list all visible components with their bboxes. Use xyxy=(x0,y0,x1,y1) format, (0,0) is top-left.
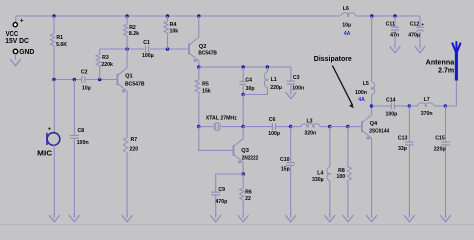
svg-text:R5: R5 xyxy=(202,82,209,88)
svg-text:C8: C8 xyxy=(78,128,85,134)
svg-text:C14: C14 xyxy=(386,97,396,103)
svg-text:2SC6144: 2SC6144 xyxy=(369,128,390,134)
svg-text:C4: C4 xyxy=(245,78,252,84)
svg-text:BC547B: BC547B xyxy=(198,51,217,57)
svg-text:C1: C1 xyxy=(143,40,150,46)
svg-text:330µ: 330µ xyxy=(312,177,324,183)
svg-text:C9: C9 xyxy=(218,187,225,193)
ground C9 xyxy=(215,214,217,218)
resistor R6 xyxy=(242,174,244,189)
capacitor C3 xyxy=(290,67,292,81)
inductor L5 xyxy=(371,82,374,95)
svg-text:15V DC: 15V DC xyxy=(5,38,29,45)
svg-text:R8: R8 xyxy=(338,168,345,174)
ground C3 xyxy=(290,91,292,95)
node C4 bottom xyxy=(241,93,245,97)
svg-text:100p: 100p xyxy=(268,131,280,137)
svg-text:BC547B: BC547B xyxy=(125,82,145,88)
svg-text:2N2222: 2N2222 xyxy=(242,156,258,162)
capacitor C10 xyxy=(290,127,292,163)
inductor L3 xyxy=(291,126,302,128)
svg-text:370n: 370n xyxy=(421,111,433,117)
bottom edge line xyxy=(0,224,474,226)
node Q3 emitter xyxy=(241,172,245,176)
transistor Q1 xyxy=(116,74,118,85)
capacitor C1 xyxy=(144,46,146,53)
node R2 bottom xyxy=(125,47,129,51)
svg-text:C11: C11 xyxy=(386,22,395,28)
svg-text:R6: R6 xyxy=(245,189,252,195)
ground L4 xyxy=(329,214,331,218)
ground C10 xyxy=(290,214,292,218)
capacitor C15 xyxy=(445,106,447,142)
ground C13 xyxy=(408,214,410,218)
svg-text:100n: 100n xyxy=(355,90,367,96)
inductor L1 xyxy=(266,67,268,72)
wire XTAL right xyxy=(221,126,243,128)
svg-text:470p: 470p xyxy=(216,199,228,205)
wire Q3 emitter xyxy=(242,162,244,174)
svg-text:Dissipatore: Dissipatore xyxy=(314,56,352,63)
svg-text:L6: L6 xyxy=(343,6,349,12)
wire Q2 collector xyxy=(198,16,200,37)
node C15 top xyxy=(444,104,448,108)
svg-text:+: + xyxy=(20,17,24,24)
resistor R3 xyxy=(99,49,101,55)
node rail-C11 xyxy=(393,14,397,18)
Dissipatore arrow xyxy=(332,66,352,106)
svg-text:C2: C2 xyxy=(81,69,88,75)
svg-text:4A: 4A xyxy=(344,31,351,37)
wire VCC rail xyxy=(16,15,340,17)
svg-text:100n: 100n xyxy=(292,86,304,92)
svg-text:2.7m: 2.7m xyxy=(438,67,454,74)
svg-text:220: 220 xyxy=(130,146,139,152)
inductor L6 xyxy=(341,13,356,17)
svg-text:R4: R4 xyxy=(170,22,177,28)
svg-text:L3: L3 xyxy=(307,119,313,125)
svg-text:Q1: Q1 xyxy=(125,74,133,80)
node C8 top xyxy=(73,78,77,82)
node Q4 collector xyxy=(370,104,374,108)
node R1-MIC xyxy=(52,78,56,82)
svg-text:R7: R7 xyxy=(131,137,138,143)
ground R8 xyxy=(347,214,349,218)
resistor R7 xyxy=(124,138,128,155)
antenna xyxy=(455,52,458,81)
svg-text:10µ: 10µ xyxy=(82,85,91,91)
svg-text:L4: L4 xyxy=(317,171,323,177)
node rail-R1 xyxy=(52,14,56,18)
svg-text:R2: R2 xyxy=(129,25,136,31)
svg-text:L1: L1 xyxy=(271,77,277,83)
node rail-L5 xyxy=(370,14,374,18)
svg-text:100: 100 xyxy=(337,174,346,180)
resistor R8 xyxy=(347,127,349,167)
svg-text:220k: 220k xyxy=(101,62,113,68)
ground C15 xyxy=(445,214,447,218)
VCC + terminal xyxy=(15,16,17,22)
ground Q4 emitter xyxy=(371,214,373,218)
svg-text:Q2: Q2 xyxy=(199,44,207,50)
wire Q3 collector xyxy=(242,127,244,139)
resistor R4 xyxy=(167,16,169,22)
wire MIC to ground xyxy=(53,145,55,216)
svg-text:C6: C6 xyxy=(269,117,276,123)
node Q2 emitter xyxy=(197,65,201,69)
svg-text:Antenna: Antenna xyxy=(426,59,455,66)
ground C11 xyxy=(394,45,396,49)
svg-text:C10: C10 xyxy=(280,157,290,163)
wire emitter net xyxy=(199,66,291,68)
svg-text:100p: 100p xyxy=(386,112,398,118)
svg-text:4A: 4A xyxy=(358,97,365,103)
crystal XTAL 27MHz xyxy=(213,123,215,129)
svg-text:Q4: Q4 xyxy=(370,121,378,127)
microphone MIC xyxy=(47,133,60,146)
ground MIC xyxy=(53,214,55,218)
inductor L7 xyxy=(409,105,417,107)
wire MIC drop xyxy=(53,80,55,134)
wire Q1 base net xyxy=(54,79,82,81)
wire Q1 collector net xyxy=(100,48,144,50)
svg-text:R1: R1 xyxy=(56,35,63,41)
svg-text:GND: GND xyxy=(19,49,34,56)
svg-text:5.6K: 5.6K xyxy=(56,42,67,48)
svg-text:220p: 220p xyxy=(434,147,446,153)
svg-text:+: + xyxy=(48,127,52,133)
svg-text:320n: 320n xyxy=(304,130,316,136)
resistor R2 xyxy=(126,16,128,25)
svg-text:15k: 15k xyxy=(202,88,211,94)
svg-text:L5: L5 xyxy=(363,81,369,87)
capacitor C8 xyxy=(73,80,75,136)
ground R7 xyxy=(126,214,128,218)
wire Q4 collector xyxy=(371,106,373,115)
node L1 top xyxy=(266,65,270,69)
svg-text:220µ: 220µ xyxy=(270,85,282,91)
wire Q2 emitter xyxy=(198,61,200,67)
wire node B to C6 xyxy=(243,126,272,128)
wire rail after L6 xyxy=(356,15,421,17)
svg-text:100µ: 100µ xyxy=(142,53,154,59)
wire Q1 collector xyxy=(126,49,128,68)
capacitor C6 xyxy=(271,123,273,130)
svg-text:470µ: 470µ xyxy=(408,33,420,39)
capacitor C9 xyxy=(211,191,220,193)
wire Q1 emitter xyxy=(126,91,128,137)
capacitor C4 xyxy=(242,67,244,81)
node rail-R2 xyxy=(125,14,129,18)
wire node A to Q3 base xyxy=(199,127,234,151)
ground R6 xyxy=(242,214,244,218)
resistor R1 xyxy=(53,16,55,34)
ground C12 xyxy=(419,45,421,49)
transistor Q2 xyxy=(188,43,190,54)
svg-text:VCC: VCC xyxy=(6,31,19,38)
node A R5-XTAL xyxy=(197,125,201,129)
svg-text:22: 22 xyxy=(245,196,251,202)
svg-text:10k: 10k xyxy=(170,28,179,34)
node rail-R4 xyxy=(166,14,170,18)
node rail-Q2 xyxy=(197,14,201,18)
svg-text:15p: 15p xyxy=(281,166,290,172)
node R8 top xyxy=(346,125,350,129)
transistor Q3 xyxy=(233,145,235,156)
GND terminal xyxy=(13,49,17,53)
wire to Q4 base xyxy=(348,126,362,128)
wire to antenna xyxy=(446,80,457,106)
svg-text:8.2k: 8.2k xyxy=(129,31,139,37)
svg-text:L7: L7 xyxy=(424,97,430,103)
wire C4 node to node B xyxy=(242,95,244,127)
node B XTAL-Q3 collector xyxy=(241,125,245,129)
inductor L4 xyxy=(329,127,331,167)
capacitor C12 xyxy=(419,16,421,27)
node R3 bottom xyxy=(98,78,102,82)
capacitor C14 xyxy=(390,103,392,110)
node R4 bottom xyxy=(166,47,170,51)
svg-text:+: + xyxy=(421,23,424,28)
svg-text:47n: 47n xyxy=(390,32,399,38)
node L4 top xyxy=(328,125,332,129)
svg-text:MIC: MIC xyxy=(37,151,52,158)
wire L4 to R8 xyxy=(330,126,348,128)
svg-text:C15: C15 xyxy=(435,136,445,142)
ground below GND terminal xyxy=(15,54,17,60)
node C13 top xyxy=(408,104,412,108)
node C10 top xyxy=(289,125,293,129)
capacitor C2 xyxy=(81,76,83,83)
svg-text:100n: 100n xyxy=(77,140,89,146)
svg-text:10µ: 10µ xyxy=(342,23,351,29)
node C4 top xyxy=(241,65,245,69)
resistor R5 xyxy=(198,67,200,80)
svg-text:C13: C13 xyxy=(398,136,408,142)
wire collector to C14 xyxy=(372,105,392,107)
wire to C9 xyxy=(216,174,244,192)
ground C8 xyxy=(73,214,75,218)
svg-text:C3: C3 xyxy=(293,75,300,81)
svg-text:Q3: Q3 xyxy=(241,148,249,154)
svg-text:33p: 33p xyxy=(398,146,407,152)
capacitor C13 xyxy=(408,106,410,142)
wire XTAL left xyxy=(199,126,213,128)
wire rail to L5 xyxy=(371,16,373,82)
capacitor C11 xyxy=(394,16,396,27)
svg-text:R3: R3 xyxy=(102,55,109,61)
svg-text:30p: 30p xyxy=(246,86,255,92)
svg-text:C12: C12 xyxy=(410,22,420,28)
wire Q4 emitter xyxy=(371,138,373,215)
transistor Q4 xyxy=(361,121,363,132)
svg-text:XTAL 27MHz: XTAL 27MHz xyxy=(206,115,237,121)
